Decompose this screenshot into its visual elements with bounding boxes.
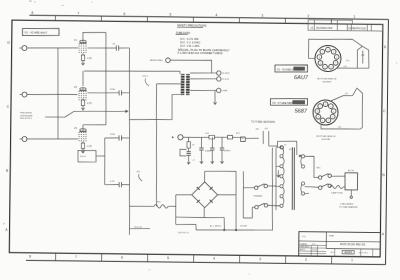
- svg-text:7: 7: [322, 52, 323, 54]
- svg-text:3TI: 3TI: [289, 149, 292, 151]
- svg-text:3: 3: [261, 14, 263, 18]
- svg-text:PILOT: PILOT: [80, 156, 87, 158]
- svg-text:4.7K: 4.7K: [87, 102, 92, 105]
- svg-text:115V 60 CY: 115V 60 CY: [177, 232, 189, 234]
- svg-text:9: 9: [320, 63, 321, 65]
- svg-text:SOCKET: SOCKET: [321, 139, 331, 141]
- svg-text:V1 - V2 ARE 6AU7: V1 - V2 ARE 6AU7: [25, 31, 48, 35]
- svg-text:B 500V: B 500V: [222, 73, 230, 75]
- svg-text:6: 6: [325, 104, 326, 106]
- svg-text:8: 8: [317, 111, 318, 113]
- svg-text:LIMITER AMP: LIMITER AMP: [20, 114, 33, 117]
- svg-text:TOL.: TOL.: [302, 236, 307, 238]
- svg-text:SEC: SEC: [316, 167, 321, 169]
- svg-text:REVISED PER: REVISED PER: [316, 27, 332, 30]
- svg-text:RESISTORS: RESISTORS: [150, 60, 163, 62]
- svg-text:3: 3: [259, 257, 261, 261]
- svg-text:E 6.3V: E 6.3V: [222, 79, 229, 81]
- svg-text:2: 2: [307, 14, 309, 18]
- svg-text:4.7K: 4.7K: [87, 57, 92, 60]
- svg-text:GRN: GRN: [222, 90, 227, 92]
- svg-text:3: 3: [335, 63, 336, 65]
- svg-text:R.C.: R.C.: [312, 244, 316, 246]
- svg-text:SEE NOTE 3: SEE NOTE 3: [20, 118, 33, 120]
- svg-text:8: 8: [29, 254, 31, 258]
- svg-text:BOTTOM VIEW OF: BOTTOM VIEW OF: [316, 136, 336, 138]
- svg-text:6-1-57: 6-1-57: [312, 250, 317, 252]
- svg-text:4.7K: 4.7K: [87, 145, 92, 148]
- svg-text:4: 4: [213, 257, 215, 261]
- svg-text:470K: 470K: [110, 134, 116, 136]
- svg-text:7: 7: [320, 106, 321, 108]
- svg-text:5: 5: [169, 12, 171, 16]
- svg-text:7: 7: [78, 11, 80, 15]
- svg-text:2 RED WIRES: 2 RED WIRES: [340, 204, 354, 206]
- svg-text:9: 9: [318, 117, 319, 119]
- svg-text:1: 1: [353, 15, 355, 19]
- svg-text:1: 1: [351, 258, 353, 262]
- svg-text:BOTTOM VIEW OF: BOTTOM VIEW OF: [317, 78, 337, 80]
- svg-text:5: 5: [333, 52, 334, 54]
- svg-text:6: 6: [328, 50, 329, 52]
- svg-text:APPROVED: APPROVED: [353, 27, 366, 30]
- svg-text:5687: 5687: [295, 109, 308, 115]
- svg-text:8: 8: [32, 11, 34, 15]
- svg-text:470 V: 470 V: [143, 76, 149, 78]
- svg-text:4.7K: 4.7K: [110, 181, 115, 183]
- svg-text:AC IN: AC IN: [348, 169, 354, 172]
- svg-text:CHECKED: CHECKED: [300, 246, 310, 248]
- svg-text:5: 5: [167, 256, 169, 260]
- svg-text:6: 6: [124, 12, 126, 16]
- svg-text:40093: 40093: [344, 250, 352, 254]
- svg-text:RCD 5C2A 991-D1: RCD 5C2A 991-D1: [340, 242, 366, 246]
- svg-text:2: 2: [305, 258, 307, 262]
- svg-text:TO TUBE HEATERS: TO TUBE HEATERS: [339, 206, 358, 209]
- svg-text:2: 2: [328, 120, 329, 122]
- svg-text:PRIMARY: PRIMARY: [254, 195, 264, 198]
- svg-text:5: 5: [330, 106, 331, 108]
- svg-text:4: 4: [215, 13, 217, 17]
- svg-text:2: 2: [331, 67, 332, 69]
- svg-text:3: 3: [332, 117, 333, 119]
- svg-text:DRAWN: DRAWN: [300, 242, 308, 245]
- svg-text:4: 4: [336, 57, 337, 59]
- svg-text:SH 1 OF 1: SH 1 OF 1: [359, 252, 369, 254]
- svg-text:1: 1: [324, 67, 325, 69]
- svg-text:115/230: 115/230: [240, 225, 248, 227]
- svg-text:NO.: NO.: [331, 252, 335, 254]
- svg-text:40MFD: 40MFD: [205, 150, 212, 152]
- svg-text:F 1,800 OHM 2UL 4 POWER TURNS: F 1,800 OHM 2UL 4 POWER TURNS: [178, 51, 223, 56]
- svg-text:1: 1: [322, 120, 323, 122]
- svg-text:470K: 470K: [110, 89, 116, 91]
- svg-text:APPR.: APPR.: [300, 248, 306, 251]
- svg-text:5 AMP FUSE: 5 AMP FUSE: [331, 192, 343, 195]
- svg-text:6AU7: 6AU7: [294, 75, 309, 81]
- svg-text:40MFD: 40MFD: [224, 150, 231, 152]
- svg-text:V3 - V7 ARE 5687: V3 - V7 ARE 5687: [272, 101, 293, 105]
- svg-text:(V-3 : 1 W. 1 20%: (V-3 : 1 W. 1 20%: [180, 45, 200, 48]
- svg-text:SOCKET: SOCKET: [322, 81, 332, 83]
- svg-text:TO TUBE HEATERS: TO TUBE HEATERS: [251, 119, 275, 123]
- svg-text:A.C. INPUT: A.C. INPUT: [210, 225, 222, 228]
- svg-text:4: 4: [333, 111, 334, 113]
- svg-text:PWR: PWR: [329, 235, 335, 237]
- svg-text:7: 7: [75, 255, 77, 259]
- svg-text:8: 8: [319, 57, 320, 59]
- svg-text:6: 6: [121, 255, 123, 259]
